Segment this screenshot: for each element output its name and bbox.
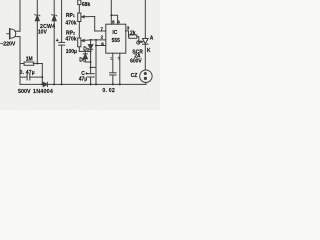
potentiometer RP2 470k xyxy=(78,38,81,47)
resistor R1 68k xyxy=(78,0,81,5)
wire pin1 ground xyxy=(119,53,121,84)
resistor R2 2k xyxy=(129,35,137,38)
svg-text:600V: 600V xyxy=(130,58,142,64)
wire pin7 net xyxy=(95,30,106,32)
svg-text:A: A xyxy=(150,35,154,41)
svg-text:470k: 470k xyxy=(65,36,76,42)
diode D3 1N4004 in bus xyxy=(43,82,47,86)
svg-text:CZ: CZ xyxy=(131,73,138,79)
svg-text:10V: 10V xyxy=(38,30,48,36)
zener diode VD1 2CW4 xyxy=(35,14,40,20)
svg-text:7: 7 xyxy=(101,27,104,32)
junction dots xyxy=(36,14,121,85)
wire pin5 cap 0.02 xyxy=(112,53,114,73)
svg-text:6: 6 xyxy=(101,41,104,46)
wire left rail bottom segment xyxy=(19,37,21,85)
svg-text:2: 2 xyxy=(101,35,104,40)
resistor R3 1M xyxy=(20,63,24,65)
svg-text:1M: 1M xyxy=(26,57,33,63)
svg-text:4: 4 xyxy=(117,20,120,25)
svg-text:IC: IC xyxy=(112,30,117,36)
wire Vcc vertical xyxy=(110,0,112,15)
wire left rail top segment xyxy=(19,0,21,31)
wire node A horizontal xyxy=(79,50,90,52)
svg-text:1N4004: 1N4004 xyxy=(33,89,53,95)
diode D1 xyxy=(83,51,91,62)
svg-text:0. 02: 0. 02 xyxy=(102,88,115,94)
diode D2 xyxy=(88,40,93,52)
wire pin3 out xyxy=(125,31,128,37)
RP1 wiper arrow xyxy=(82,16,95,18)
wire timing node vertical xyxy=(90,51,92,73)
capacitor C3 0.47u xyxy=(20,76,27,78)
potentiometer RP1 470k xyxy=(78,13,81,22)
SCR VS xyxy=(143,0,149,70)
svg-text:~220V: ~220V xyxy=(0,42,16,48)
capacitor C2 47u xyxy=(87,73,94,75)
svg-text:100µ: 100µ xyxy=(66,49,77,55)
wire bottom bus xyxy=(20,83,146,85)
socket CZ xyxy=(140,70,152,84)
wire RC right node xyxy=(41,64,43,85)
svg-text:G: G xyxy=(136,40,140,46)
svg-text:555: 555 xyxy=(112,38,121,44)
svg-text:500V: 500V xyxy=(18,89,31,95)
plug XP ~220V xyxy=(7,29,20,39)
wire pin8/4 bracket xyxy=(111,15,117,24)
svg-text:47µ: 47µ xyxy=(79,76,88,82)
svg-text:K: K xyxy=(147,48,151,54)
op IC U1 555 box xyxy=(106,24,126,53)
wire zener2 vertical xyxy=(53,0,55,84)
capacitor C1 100u vertical line xyxy=(61,0,63,42)
wire gate xyxy=(137,37,143,43)
RP2 wiper arrow xyxy=(82,40,91,42)
wire pin6 net xyxy=(96,45,106,47)
svg-text:68k: 68k xyxy=(82,2,91,8)
svg-text:8: 8 xyxy=(112,20,115,25)
zener diode VD2 2CW4 xyxy=(52,14,57,20)
svg-text:470k: 470k xyxy=(65,20,76,26)
svg-text:0. 47µ: 0. 47µ xyxy=(20,70,35,76)
wire pin2 net xyxy=(91,39,106,41)
wire zener1 vertical xyxy=(36,0,38,64)
svg-text:+: + xyxy=(56,38,59,44)
svg-text:2k: 2k xyxy=(130,31,136,37)
